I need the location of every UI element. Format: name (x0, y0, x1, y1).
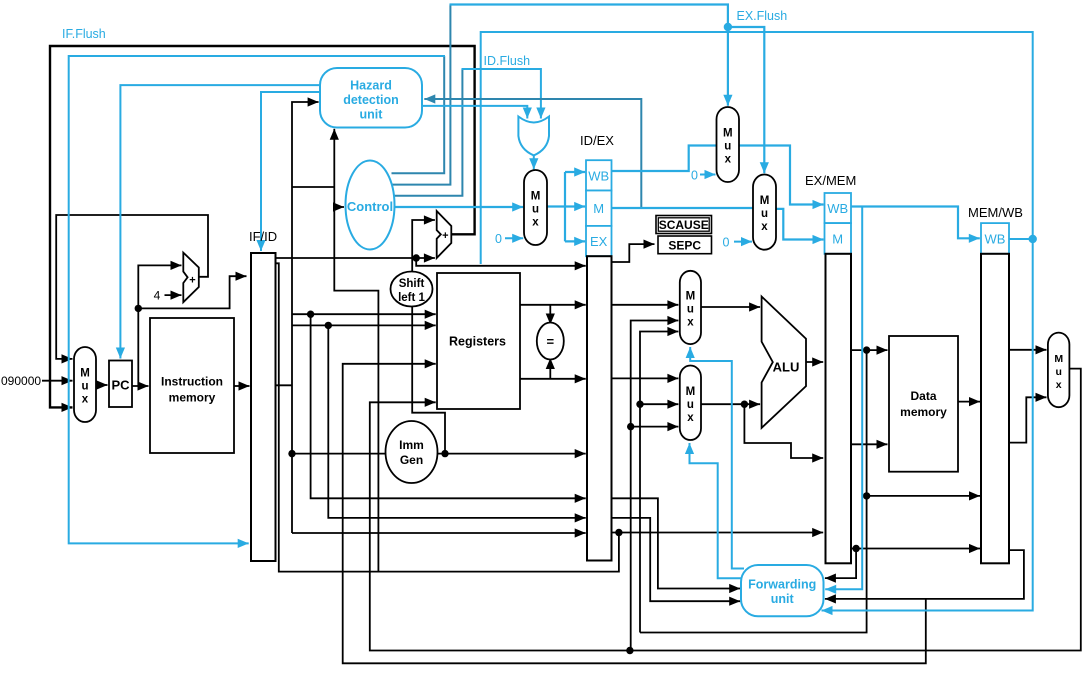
wire zero mux to ID/EX control fields bracket (547, 205, 565, 207)
register SEPC (658, 236, 712, 254)
node rs1 junction (307, 311, 314, 318)
svg-text:u: u (81, 381, 88, 393)
wire EX/MEM rd to forwarding unit (825, 549, 856, 579)
wire read register 1 row (292, 313, 436, 315)
svg-text:0: 0 (495, 232, 502, 246)
alu main (762, 297, 806, 428)
wire MEM/WB RegWrite long run to forwarding unit (481, 32, 1033, 611)
wire zero constant into EX-stage WB mux (700, 174, 716, 176)
wire WB-value forwarding branch to mux B input 2 (631, 426, 679, 428)
svg-text:0: 0 (691, 169, 698, 183)
wire rd to MEM/WB (851, 548, 980, 550)
block Imm Gen (386, 421, 438, 483)
wire forwarding unit control to mux A (690, 347, 744, 569)
svg-text:SEPC: SEPC (668, 239, 701, 253)
svg-text:EX.Flush: EX.Flush (737, 9, 788, 23)
wire WB-value forwarding to mux A input 1 (630, 321, 679, 651)
node ALU result junction (863, 346, 870, 353)
wire rd to EX/MEM (612, 532, 824, 534)
svg-text:u: u (532, 204, 539, 216)
wire MEM/WB ALU result to write-back mux (1009, 349, 1047, 351)
wire PC to ID/EX (416, 258, 586, 266)
svg-text:Registers: Registers (449, 335, 506, 349)
wire ID/EX M field to EX-stage M mux (612, 207, 753, 209)
wire instruction bus rung (292, 186, 334, 188)
svg-text:u: u (724, 141, 731, 153)
mux EX-stage M zero (753, 175, 776, 250)
svg-text:M: M (686, 291, 696, 303)
wire EX/MEM-result forwarding to mux A input 2 (640, 332, 678, 633)
svg-text:MEM/WB: MEM/WB (968, 205, 1023, 220)
mux write-back (1048, 333, 1070, 408)
pipeline register EX/MEM (826, 254, 852, 564)
wire immediate field to Imm Gen (292, 453, 387, 455)
wire ID/EX PC to SEPC (612, 244, 655, 262)
svg-text:090000: 090000 (1, 374, 41, 388)
wire hazard detection IF/ID write (261, 92, 320, 251)
svg-text:unit: unit (771, 592, 795, 606)
wire MEM/WB rd feedback to Registers write register (343, 364, 926, 664)
wire rs2 to forwarding unit (612, 518, 741, 601)
register SCAUSE inner (658, 218, 709, 231)
wire read data 2 to ID/EX (520, 378, 586, 380)
adder branch target (437, 211, 452, 258)
wire read register 2 row (292, 324, 436, 326)
register PC (109, 361, 132, 408)
svg-text:+: + (189, 275, 195, 287)
wire exception handler address 090000 into PC mux (42, 380, 73, 382)
wire zero constant into EX-stage M mux (734, 241, 752, 243)
svg-text:memory: memory (169, 391, 216, 405)
wire mux B to ALU (701, 403, 760, 405)
svg-text:+: + (442, 230, 448, 242)
node PC out junction (413, 254, 420, 261)
wire Control output to zero mux (395, 206, 524, 208)
wire OR gate output to control zero mux (533, 155, 535, 169)
wire EX/MEM WB to MEM/WB WB (851, 207, 980, 239)
wire ID/EX WB field to EX-stage WB mux (612, 146, 717, 172)
pipeline register EX/MEM control M (825, 223, 852, 254)
or-gate exception flush (518, 117, 549, 156)
svg-text:x: x (1056, 379, 1062, 391)
wire instruction to hazard detection unit bottom (333, 129, 335, 187)
wire Control to IF.Flush rise (392, 56, 445, 173)
mux control-zero (ID) (524, 170, 547, 245)
wire EX/MEM RegWrite down to forwarding unit (825, 207, 862, 590)
block Instruction memory (150, 318, 234, 453)
node immediate field junction (288, 450, 295, 457)
block Hazard detection unit (320, 68, 422, 128)
svg-text:4: 4 (154, 289, 161, 303)
mux ALU operand A (680, 271, 701, 344)
wire ALU result to EX/MEM (806, 361, 823, 363)
wire read data 2 to ALU mux B (612, 377, 679, 379)
wire ALU result bypass to MEM/WB (867, 495, 980, 497)
wire PC mux to PC (96, 384, 108, 386)
svg-text:u: u (687, 399, 694, 411)
wire rs1 number to ID/EX (311, 314, 586, 498)
node rd junction after EX/MEM (852, 545, 859, 552)
wire Instruction memory to IF/ID (234, 385, 250, 387)
svg-text:M: M (723, 128, 733, 140)
svg-text:x: x (532, 217, 539, 229)
svg-text:M: M (80, 368, 90, 380)
register SCAUSE outer (656, 216, 712, 234)
svg-text:u: u (687, 304, 694, 316)
wire Imm Gen output to shift left 1 (412, 306, 445, 453)
node EX/MEM fwd junction (636, 401, 643, 408)
svg-text:M: M (531, 191, 541, 203)
adder PC+4 (183, 253, 199, 303)
svg-text:=: = (547, 334, 555, 349)
svg-text:WB: WB (985, 232, 1006, 247)
block Forwarding unit (741, 565, 824, 616)
wire shift left 1 output to adder2 upper input (412, 220, 435, 272)
wire IF/ID PC out row to adder2 lower input (276, 257, 435, 259)
wire control WB into ID/EX (565, 171, 585, 173)
wire EX.Flush top run to EX-stage WB mux (450, 5, 728, 106)
node write-back value junction (626, 647, 633, 654)
node RegWrite junction (1029, 235, 1037, 243)
svg-text:Data: Data (910, 389, 936, 403)
block Registers (437, 273, 520, 409)
wire write data to Data memory (851, 443, 888, 445)
svg-text:ALU: ALU (773, 360, 800, 375)
wire control bracket vertical (564, 172, 566, 241)
wire Control to ID.Flush rise (393, 69, 462, 196)
svg-text:unit: unit (360, 108, 384, 122)
svg-text:Imm: Imm (399, 438, 424, 452)
arrowhead into hazard detection unit (424, 94, 435, 103)
block Control (346, 161, 395, 250)
wire rd under-loop (276, 263, 619, 571)
svg-text:left 1: left 1 (398, 292, 425, 304)
wire instruction to Control (334, 187, 344, 207)
wire control EX into ID/EX (565, 240, 585, 242)
wire read data 1 to ALU mux A (612, 304, 679, 306)
svg-text:x: x (687, 412, 694, 424)
svg-text:x: x (82, 394, 89, 406)
block Data memory (889, 336, 958, 472)
wire PC value to IF/ID (138, 276, 246, 308)
pipeline register IF/ID (251, 253, 276, 561)
block Shift left 1 (391, 272, 433, 307)
svg-text:x: x (761, 221, 768, 233)
wire read data 1 branch to comparator (549, 305, 551, 325)
pipeline register ID/EX control WB (586, 160, 612, 190)
node rs2 junction (325, 322, 332, 329)
svg-text:u: u (1055, 366, 1061, 378)
wire address to Data memory (851, 349, 888, 351)
wire rs1 to forwarding unit (612, 498, 741, 588)
wire instruction bus vertical to HDU left input (292, 102, 319, 533)
pipeline register ID/EX control EX (586, 226, 612, 256)
wire MEM/WB rd out and to forwarding unit (825, 550, 1024, 599)
mux PC-source (74, 347, 96, 422)
wire ID.Flush run to OR gate (462, 69, 541, 119)
node rd junction after ID/EX (615, 529, 622, 536)
svg-text:WB: WB (827, 201, 848, 216)
wire PC to Instruction memory (132, 385, 149, 387)
svg-text:M: M (760, 195, 770, 207)
wire IF.Flush to IF/ID flush input (69, 56, 445, 543)
svg-text:EX/MEM: EX/MEM (805, 173, 856, 188)
node bypass junction (863, 492, 870, 499)
svg-text:x: x (725, 154, 732, 166)
wire zero constant into control zero mux (505, 237, 523, 239)
svg-text:Shift: Shift (399, 278, 425, 290)
svg-text:M: M (686, 386, 696, 398)
svg-text:SCAUSE: SCAUSE (659, 218, 709, 232)
wire instruction jog down to under-loop (334, 207, 378, 572)
svg-text:Gen: Gen (400, 453, 423, 467)
svg-text:0: 0 (723, 236, 730, 250)
wire rs2 number to ID/EX (328, 325, 585, 518)
wire write-back mux output feedback to Registers write data (370, 369, 1081, 651)
wire ID/EX.MemRead to hazard detection unit (424, 99, 641, 208)
node EX.Flush junction (724, 23, 732, 31)
wire rd number to ID/EX (292, 532, 586, 534)
node WB-value fwd junction (627, 423, 634, 430)
svg-text:Instruction: Instruction (161, 375, 223, 389)
node store data junction (741, 401, 748, 408)
pipeline register MEM/WB (981, 254, 1009, 564)
wire branch/jump target: adder2 out to top-left loop to PC mux input 2 (50, 46, 475, 407)
wire forwarding unit control to mux B (690, 443, 742, 578)
pipeline register ID/EX control M (586, 191, 612, 226)
pipeline register MEM/WB control WB (981, 223, 1009, 254)
wire hazard detection stall to OR gate (422, 106, 528, 119)
wire read data 2 branch to comparator (549, 358, 551, 379)
node PC value junction (135, 305, 142, 312)
wire EX/MEM result loop down to bottom row (640, 350, 867, 632)
wire mux A to ALU (701, 306, 760, 308)
svg-text:M: M (832, 232, 843, 247)
node Imm Gen output junction (441, 450, 448, 457)
svg-text:WB: WB (588, 169, 609, 184)
wire instruction stub from IF/ID (276, 384, 293, 386)
svg-text:PC: PC (111, 378, 130, 393)
wire MEM/WB WB field to RegWrite run (1009, 238, 1033, 240)
wire read data 1 to ID/EX (520, 304, 586, 306)
svg-text:x: x (687, 317, 694, 329)
pipeline register EX/MEM control WB (825, 193, 852, 223)
svg-text:Control: Control (347, 199, 393, 214)
wire EX.Flush branch to EX-stage M mux (728, 27, 764, 173)
wire EX/MEM-result forwarding branch to mux B input 1 (640, 403, 678, 405)
svg-text:M: M (1054, 353, 1063, 365)
pipeline register ID/EX (587, 256, 612, 560)
svg-text:memory: memory (900, 405, 947, 419)
wire Control to EX.Flush rise (393, 5, 451, 185)
svg-text:ID.Flush: ID.Flush (484, 54, 531, 68)
svg-text:ID/EX: ID/EX (580, 133, 614, 148)
svg-text:Hazard: Hazard (350, 79, 392, 93)
wire hazard detection PCWrite to PC (120, 85, 320, 358)
mux ALU operand B (680, 366, 701, 441)
wire EX-stage WB mux to EX/MEM WB (739, 146, 824, 205)
wire PC value tap up to adder1 input 1 (138, 265, 181, 386)
wire store data to EX/MEM (744, 404, 823, 458)
wire EX-stage M mux to EX/MEM M (776, 209, 824, 240)
svg-text:EX: EX (590, 234, 608, 249)
svg-text:u: u (761, 208, 768, 220)
svg-text:IF.Flush: IF.Flush (62, 27, 106, 41)
comparator branch equality (537, 323, 564, 360)
wire Data memory read data to MEM/WB (958, 401, 980, 403)
svg-text:Forwarding: Forwarding (748, 578, 816, 592)
mux EX-stage WB zero (717, 107, 740, 182)
wire PC+4: adder1 out loop to PC mux input 0 (56, 215, 208, 359)
wire Imm Gen output to ID/EX (437, 453, 585, 455)
svg-text:M: M (593, 201, 604, 216)
svg-text:IF/ID: IF/ID (249, 229, 277, 244)
wire control M into ID/EX (565, 205, 585, 207)
wire MEM/WB memory data to write-back mux (1009, 397, 1047, 442)
wire constant 4 into adder1 (165, 294, 182, 296)
svg-text:detection: detection (343, 93, 399, 107)
